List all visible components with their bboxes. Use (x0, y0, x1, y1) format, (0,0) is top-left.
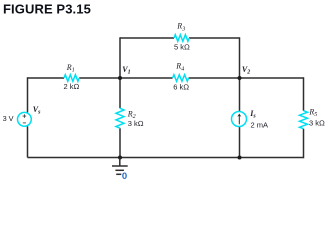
svg-text:V1: V1 (122, 65, 130, 76)
svg-text:3 kΩ: 3 kΩ (128, 119, 144, 128)
svg-text:3 V: 3 V (3, 114, 14, 123)
resistor R3 zigzag (174, 35, 189, 42)
wire V1 vertical upper (top rail to middle rail) (119, 37, 121, 78)
svg-text:Vs: Vs (33, 105, 41, 116)
voltage source minus sign (23, 122, 26, 124)
svg-text:0: 0 (122, 171, 127, 182)
junction dot bottom of Is branch (238, 156, 242, 160)
wire R2 branch vertical (119, 78, 121, 158)
junction dot bottom of R2 branch (118, 156, 122, 160)
resistor R2 zigzag (116, 108, 124, 128)
wire V2 vertical upper (top rail to middle rail) (239, 37, 241, 78)
ground bar 1 (112, 165, 128, 167)
resistor R1 zigzag (64, 75, 79, 82)
current source Is circle (232, 112, 247, 127)
node V2 junction dot (238, 76, 242, 80)
wire bottom rail (28, 157, 304, 159)
ground bar 2 (115, 169, 124, 171)
current source arrow (238, 115, 240, 124)
svg-text:R3: R3 (176, 22, 185, 33)
wire right branch vertical (303, 77, 305, 158)
svg-text:5 kΩ: 5 kΩ (174, 43, 190, 52)
svg-text:R1: R1 (66, 63, 75, 74)
svg-text:R5: R5 (308, 108, 317, 119)
node V1 junction dot (118, 76, 122, 80)
svg-text:2 mA: 2 mA (251, 120, 269, 129)
svg-text:6 kΩ: 6 kΩ (173, 83, 189, 92)
svg-text:FIGURE P3.15: FIGURE P3.15 (3, 2, 91, 17)
svg-text:Is: Is (249, 109, 256, 120)
resistor R4 zigzag (173, 75, 189, 82)
wire Is branch vertical (239, 78, 241, 158)
ground stub (119, 158, 121, 166)
svg-text:R4: R4 (175, 62, 184, 73)
resistor R5 zigzag (300, 111, 308, 129)
wire middle rail (28, 77, 304, 79)
voltage source Vs circle (18, 112, 32, 126)
wire top rail (120, 37, 240, 39)
svg-text:3 kΩ: 3 kΩ (309, 119, 325, 128)
svg-text:2 kΩ: 2 kΩ (64, 82, 80, 91)
voltage source plus sign (23, 114, 27, 118)
svg-text:V2: V2 (242, 65, 250, 76)
wire left branch vertical (27, 77, 29, 157)
ground bar 3 (116, 173, 121, 175)
